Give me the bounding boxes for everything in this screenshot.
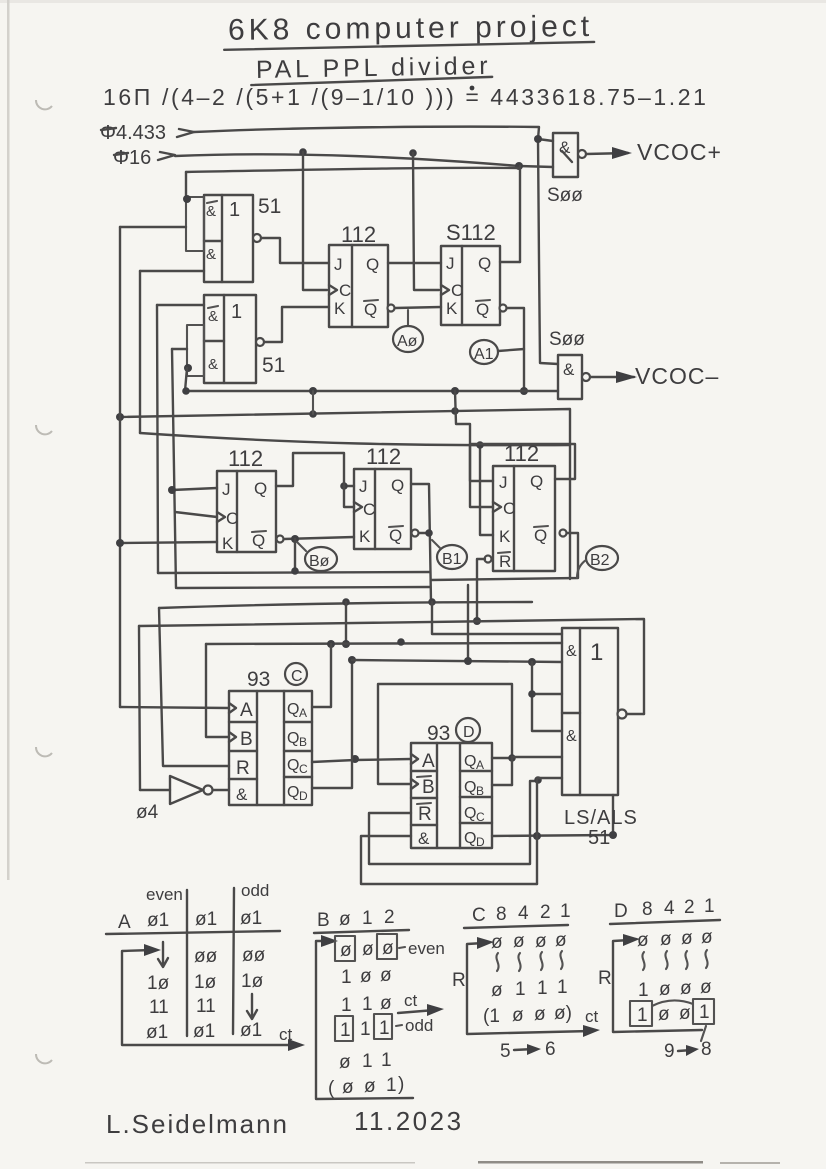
svg-text:9: 9 <box>664 1041 675 1062</box>
svg-text:Q: Q <box>287 784 299 801</box>
junction bus416 b <box>309 410 317 418</box>
wire Qbar S112 down to nand S00b <box>507 308 524 391</box>
wire bus y571 <box>158 572 430 573</box>
wire Qbar A0 to K S112 <box>395 307 441 308</box>
svg-text:B: B <box>317 910 330 931</box>
svg-text:A: A <box>476 758 484 772</box>
wire input to U2 pin2 <box>157 304 204 306</box>
svg-text:R: R <box>236 758 250 779</box>
table B row1 boxed even <box>335 936 355 961</box>
svg-text:B2: B2 <box>590 552 610 569</box>
svg-text:5: 5 <box>500 1041 511 1062</box>
junction x532 y694 <box>528 690 536 698</box>
and-or gate U2 74x51 lower <box>187 295 264 383</box>
wire riser x537 to gate <box>537 778 562 884</box>
nand gate S00a <box>553 133 586 177</box>
svg-text:J: J <box>222 480 231 499</box>
wire phi16 to NAND S00a <box>175 154 553 167</box>
wire QA counter C riser <box>312 644 331 707</box>
svg-text:ø: ø <box>637 930 649 951</box>
svg-text:93: 93 <box>427 722 450 745</box>
svg-text:R: R <box>452 970 466 991</box>
table C header rule <box>464 925 568 928</box>
junction bus416 left <box>116 413 124 421</box>
junction bus416 c <box>451 407 459 415</box>
svg-text:ø: ø <box>339 909 351 930</box>
svg-text:4: 4 <box>518 903 529 924</box>
svg-text:Aø: Aø <box>397 333 418 350</box>
wire bus y445 <box>140 433 570 445</box>
svg-text:11: 11 <box>196 996 216 1017</box>
wire riser x532 gate inputs <box>532 662 562 731</box>
svg-text:51: 51 <box>258 195 281 218</box>
svg-text:ø1: ø1 <box>195 909 217 930</box>
wire Q S112 right <box>500 261 520 263</box>
svg-text:&: & <box>206 246 216 263</box>
table B cycle bracket <box>316 941 413 1099</box>
svg-text:ct: ct <box>404 991 418 1010</box>
svg-text:ø: ø <box>534 1004 546 1025</box>
svg-text:Q: Q <box>464 753 476 770</box>
table A column rules <box>186 890 188 1036</box>
wire Qbar B2 to bus585 <box>431 533 578 580</box>
junction bus391 a <box>309 387 317 395</box>
svg-text:1: 1 <box>638 980 649 1001</box>
svg-text:11.2023: 11.2023 <box>354 1106 464 1136</box>
svg-text:S112: S112 <box>446 220 496 245</box>
svg-text:1ø: 1ø <box>194 972 217 993</box>
input phi 16 label <box>113 147 151 169</box>
table A cycle bracket <box>122 950 296 1045</box>
svg-text:ø: ø <box>491 932 503 953</box>
svg-text:B: B <box>240 729 253 750</box>
wire bus y416 <box>120 409 570 579</box>
svg-text:&: & <box>208 308 218 325</box>
table D row4 boxed <box>630 1001 652 1026</box>
svg-text:Φ16: Φ16 <box>113 147 151 169</box>
svg-text:Φ4.433: Φ4.433 <box>100 122 166 144</box>
svg-text:6: 6 <box>545 1039 556 1060</box>
wire A input counter C <box>120 707 229 708</box>
wire Q B0 loop to C B1 <box>276 453 354 507</box>
svg-text:C: C <box>451 281 463 300</box>
wire QD counter D to gate bottom <box>492 795 613 836</box>
wire left rail x140 <box>139 271 141 433</box>
svg-text:K: K <box>446 299 458 318</box>
flip-flop B0 74112 <box>217 471 284 553</box>
svg-text:LS/ALS: LS/ALS <box>564 807 638 829</box>
and-or gate U1 74x51 upper <box>186 195 261 282</box>
svg-text:ø: ø <box>382 938 394 959</box>
svg-text:Q: Q <box>287 757 299 774</box>
counter D 7493 <box>411 743 492 849</box>
table B header rule <box>314 930 409 933</box>
junction J B1 stub <box>340 482 348 490</box>
svg-text:2: 2 <box>384 907 395 928</box>
svg-text:B: B <box>299 735 307 749</box>
svg-text:C: C <box>503 499 515 518</box>
svg-text:Q: Q <box>391 476 404 495</box>
svg-text:ø1: ø1 <box>147 910 169 931</box>
svg-text:&: & <box>566 643 577 660</box>
subtitle: PAL PPL divider <box>251 52 492 85</box>
svg-text:(: ( <box>328 1078 335 1099</box>
svg-text:ø: ø <box>491 980 503 1001</box>
wire K B2 riser <box>480 445 493 535</box>
svg-text:51: 51 <box>262 354 285 377</box>
wire QD counter C riser to y660 <box>312 660 352 788</box>
junction QD x537 <box>533 832 541 840</box>
counter C 7493 <box>229 691 312 805</box>
table C row2 squiggles <box>496 953 498 971</box>
svg-text:ø: ø <box>380 993 392 1014</box>
junction y644 <box>342 640 350 648</box>
svg-text:8: 8 <box>642 899 653 920</box>
svg-text:C: C <box>226 509 238 528</box>
svg-text:Q: Q <box>530 472 543 491</box>
wire gate output to feedback <box>627 713 644 715</box>
svg-text:&: & <box>236 785 248 804</box>
input phi 4.433 label <box>100 122 166 144</box>
wire QA counter D loop to B <box>378 684 512 784</box>
junction QD x613 <box>609 831 617 839</box>
svg-text:K: K <box>222 534 234 553</box>
svg-text:Q: Q <box>287 730 299 747</box>
svg-text:ø4: ø4 <box>136 802 159 823</box>
svg-text:1: 1 <box>360 1019 371 1040</box>
svg-text:Q: Q <box>476 300 489 319</box>
svg-text:16Π /(4–2 /(5+1 /(9–1/10 ))) =: 16Π /(4–2 /(5+1 /(9–1/10 ))) = 4433618.7… <box>103 84 709 110</box>
wire left rail x157 <box>157 305 158 573</box>
junction QD net <box>348 656 356 664</box>
svg-text:51: 51 <box>588 827 610 849</box>
junction bus602 b <box>428 598 436 606</box>
wire QB counter D riser <box>492 784 512 786</box>
table C cycle bracket <box>467 943 591 1034</box>
svg-text:112: 112 <box>341 222 376 247</box>
svg-text:Q: Q <box>464 779 476 796</box>
svg-text:1: 1 <box>362 1051 373 1072</box>
svg-text:R: R <box>418 804 432 825</box>
wire Q A0 to J S112 <box>388 262 441 264</box>
junction bus602 a <box>342 598 350 606</box>
svg-text:VCOC–: VCOC– <box>635 363 719 389</box>
svg-text:Q: Q <box>364 300 377 319</box>
svg-text:ø: ø <box>681 928 693 949</box>
svg-text:ø: ø <box>360 966 372 987</box>
svg-text:R: R <box>499 552 511 571</box>
junction x537 y781 <box>534 776 542 784</box>
svg-text:Q: Q <box>478 254 491 273</box>
svg-text:J: J <box>499 473 508 492</box>
title: 6K8 computer project <box>224 10 594 50</box>
wire Qbar B1 to rail x429 <box>419 532 429 534</box>
svg-text:VCOC+: VCOC+ <box>637 139 722 165</box>
wire riser x468 to gate input <box>467 585 469 661</box>
svg-text:odd: odd <box>405 1016 433 1035</box>
svg-text:(1: (1 <box>483 1006 500 1027</box>
svg-text:Q: Q <box>464 805 476 822</box>
wire feedback net y170 to gate U2 input <box>186 168 519 172</box>
svg-text:B1: B1 <box>442 551 462 568</box>
flip-flop B1 74112 <box>354 469 419 549</box>
svg-text:&: & <box>206 203 216 220</box>
junction phi16 C-A0 <box>299 148 307 156</box>
svg-text:2: 2 <box>540 902 551 923</box>
svg-text:Søø: Søø <box>547 185 583 206</box>
junction Qbar-S112 nand bus <box>520 387 528 395</box>
node A1 <box>470 340 524 364</box>
svg-text:ø: ø <box>555 930 567 951</box>
svg-text:2: 2 <box>684 897 695 918</box>
junction QB riser <box>508 754 516 762</box>
svg-text:ø: ø <box>700 977 712 998</box>
svg-text:J: J <box>359 477 368 496</box>
svg-text:D: D <box>299 789 308 803</box>
node B1 <box>432 540 467 569</box>
svg-text:ø: ø <box>380 965 392 986</box>
svg-text:C: C <box>363 500 375 519</box>
svg-text:A: A <box>422 751 435 772</box>
wire left rail x172 to J B0 <box>172 349 176 588</box>
svg-text:Q: Q <box>389 526 402 545</box>
svg-text:8: 8 <box>701 1039 712 1060</box>
wire clock to C of A1 <box>413 153 439 290</box>
svg-text:Bø: Bø <box>309 553 330 570</box>
svg-text:ø): ø) <box>554 1003 572 1024</box>
svg-text:1: 1 <box>537 978 548 999</box>
wire phi4.433 to NAND S00a and down to NAND S00b <box>194 127 539 139</box>
svg-text:even: even <box>408 939 445 958</box>
table D row2 squiggles <box>642 952 644 970</box>
svg-text:1: 1 <box>341 967 352 988</box>
wire bus y644 to gate pin1 <box>206 643 562 644</box>
svg-text:1: 1 <box>386 1075 397 1096</box>
svg-text:even: even <box>146 885 183 904</box>
svg-text:1: 1 <box>637 1005 648 1026</box>
svg-text:1: 1 <box>340 1020 351 1041</box>
junction U2 input <box>184 364 192 372</box>
wire U1 out to J of A0 <box>261 238 329 263</box>
svg-text:6K8 computer project: 6K8 computer project <box>228 10 593 47</box>
wire input to U2 pin3 <box>172 348 187 350</box>
wire QC counter C to A counter D <box>312 759 411 762</box>
junction phi16 C-A1 <box>409 149 417 157</box>
svg-text:C: C <box>472 905 486 926</box>
svg-text:1: 1 <box>231 301 242 323</box>
node A0 <box>393 310 423 352</box>
svg-text:ø: ø <box>340 940 352 961</box>
wire input to U1 pin2 <box>120 226 186 228</box>
svg-text:ø1: ø1 <box>240 908 262 929</box>
junction QC net <box>351 755 359 763</box>
svg-text:ø: ø <box>364 1076 376 1097</box>
junction bus391 start <box>182 387 190 395</box>
wire feedback y617 from gate output <box>139 619 644 714</box>
svg-text:1: 1 <box>704 896 715 917</box>
svg-text:K: K <box>499 527 511 546</box>
wire riser x206 to B input counter C <box>206 644 229 737</box>
svg-text:1: 1 <box>379 1018 390 1039</box>
svg-text:ø: ø <box>660 929 672 950</box>
flip-flop A0 74112 <box>329 245 395 327</box>
wire bus y391 to nand S00b <box>185 390 558 392</box>
wire Qbar B0 down to bus571 <box>294 539 296 571</box>
svg-text:Q: Q <box>534 526 547 545</box>
junction Qbar B1 <box>425 529 433 537</box>
junction phi4.433/NAND <box>534 135 542 143</box>
junction QA-C riser <box>327 640 335 648</box>
junction J B0 <box>168 486 176 494</box>
svg-text:Q: Q <box>254 479 267 498</box>
svg-text:1: 1 <box>381 1050 392 1071</box>
svg-text:odd: odd <box>241 881 269 900</box>
svg-text:ø: ø <box>658 1004 670 1025</box>
svg-text:øø: øø <box>194 946 218 967</box>
svg-text:D: D <box>476 835 485 849</box>
gate U3 LS/ALS 51 <box>562 628 627 795</box>
junction K B0 rail <box>116 539 124 547</box>
wire left rail x120 <box>119 227 121 707</box>
svg-text:ø: ø <box>535 931 547 952</box>
svg-text:ø: ø <box>659 979 671 1000</box>
flip-flop B2 74112 <box>485 466 567 571</box>
svg-text:&: & <box>208 356 218 373</box>
wire input to U1 pin3 <box>140 270 204 272</box>
wire bus y602 <box>159 602 532 608</box>
wire Qbar B0 to K B1 <box>284 537 354 539</box>
svg-text:ct: ct <box>585 1007 599 1026</box>
output arrow VCOC- <box>590 376 634 378</box>
wire y757 to gate <box>512 757 562 785</box>
wire Rbar B2 to reset net <box>477 559 485 621</box>
junction y660 x468 <box>464 657 472 665</box>
input arrow phi16 <box>158 152 175 160</box>
wire J B2 riser <box>455 391 493 481</box>
junction U1 input <box>183 195 191 203</box>
nand gate S00b <box>558 355 590 399</box>
svg-text:4: 4 <box>664 898 675 919</box>
junction bus644 extra <box>397 638 405 646</box>
svg-text:ø1: ø1 <box>146 1022 168 1043</box>
svg-text:J: J <box>334 255 343 274</box>
output arrow VCOC+ <box>586 153 628 154</box>
svg-text:1ø: 1ø <box>147 973 170 994</box>
svg-text:ø: ø <box>362 939 374 960</box>
junction Qbar B0 <box>291 535 299 543</box>
svg-text:1: 1 <box>362 908 373 929</box>
svg-text:K: K <box>334 299 346 318</box>
table D cycle bracket <box>613 940 702 1032</box>
table B row4 boxed odd <box>335 1016 353 1041</box>
svg-text:ø: ø <box>339 1052 351 1073</box>
svg-text:C: C <box>299 762 308 776</box>
svg-text:K: K <box>359 527 371 546</box>
svg-text:1: 1 <box>362 994 373 1015</box>
wire Q B2 loop to C B2 <box>470 444 575 507</box>
svg-text:1: 1 <box>590 639 603 666</box>
svg-text:ø: ø <box>680 978 692 999</box>
svg-text:D: D <box>463 724 475 741</box>
svg-text:&: & <box>563 360 575 379</box>
wire riser x432 to gate pin <box>432 602 562 634</box>
svg-text:A: A <box>240 700 253 721</box>
wire C B0 stub <box>175 512 217 517</box>
wire Q B1 to rail x429 <box>411 484 431 602</box>
svg-text:11: 11 <box>149 997 169 1018</box>
table D header rule <box>610 920 720 924</box>
svg-text:A: A <box>299 706 307 720</box>
svg-text:C: C <box>291 668 303 685</box>
node C <box>285 663 307 685</box>
svg-text:J: J <box>446 254 455 273</box>
svg-text:93: 93 <box>247 668 270 691</box>
wire gate stub y694 <box>532 693 562 695</box>
wire riser x346 <box>345 602 347 644</box>
junction net3 <box>515 162 523 170</box>
svg-text:C: C <box>476 810 485 824</box>
table A header rule <box>106 931 280 934</box>
input arrow phi4.433 <box>177 129 194 137</box>
wire bus y660 to gate <box>352 660 562 662</box>
node D <box>456 718 480 742</box>
svg-text:1: 1 <box>557 977 568 998</box>
svg-text:): ) <box>398 1074 404 1095</box>
svg-text:1: 1 <box>699 1002 710 1023</box>
svg-text:ø: ø <box>513 931 525 952</box>
svg-text:ø: ø <box>512 1005 524 1026</box>
svg-text:øø: øø <box>242 945 266 966</box>
svg-text:&: & <box>418 829 430 848</box>
svg-text:1ø: 1ø <box>241 971 264 992</box>
svg-text:1: 1 <box>515 979 526 1000</box>
wire J B1 stub <box>344 485 354 487</box>
flip-flop A1 74S112 <box>441 246 507 325</box>
node B0 <box>297 542 337 571</box>
wire U2 out to K of A0 <box>264 307 329 342</box>
svg-text:B: B <box>476 784 484 798</box>
svg-text:A: A <box>118 912 131 933</box>
svg-text:ø1: ø1 <box>240 1020 262 1041</box>
junction bus391 b <box>451 387 459 395</box>
svg-text:B: B <box>422 777 435 798</box>
svg-text:ø: ø <box>701 927 713 948</box>
svg-text:D: D <box>614 901 628 922</box>
svg-text:1: 1 <box>560 901 571 922</box>
svg-text:1: 1 <box>229 199 240 221</box>
wire and-input D loop <box>361 836 537 884</box>
wire bus y585 <box>177 587 430 588</box>
svg-text:112: 112 <box>366 444 401 469</box>
svg-text:Q: Q <box>366 255 379 274</box>
node B2 <box>577 546 618 578</box>
svg-text:ø1: ø1 <box>193 1021 215 1042</box>
wire U2 stub down to nand bus <box>185 368 187 391</box>
junction reset net <box>473 617 481 625</box>
svg-text:1: 1 <box>341 995 352 1016</box>
inverter phi4 <box>140 776 229 804</box>
junction K B2 riser <box>476 441 484 449</box>
svg-text:ø: ø <box>679 1003 691 1024</box>
svg-text:A1: A1 <box>474 346 494 363</box>
svg-text:Q: Q <box>252 531 265 550</box>
svg-text:&: & <box>566 728 577 745</box>
wire K B0 bus y543 <box>120 542 217 543</box>
table A row1 <box>158 942 168 967</box>
wire S112 Q up to net3 <box>519 166 521 262</box>
wire clock to C of A0 <box>303 152 327 290</box>
svg-text:L.Seidelmann: L.Seidelmann <box>106 1109 289 1139</box>
